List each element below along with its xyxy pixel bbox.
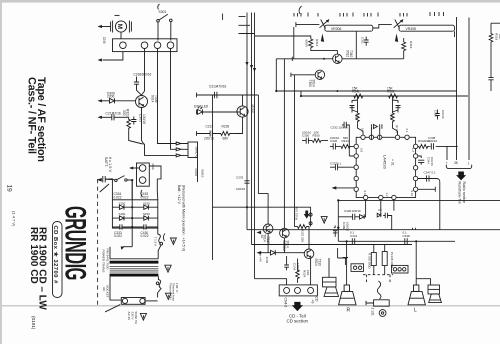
wire CN8 down-left [103,52,123,60]
IC pin 10 [354,187,358,191]
radio connector bracket [446,165,471,169]
svg-text:680/16: 680/16 [142,73,152,77]
transistor T319 [304,249,314,259]
svg-text:Tape / AF section: Tape / AF section [35,77,47,162]
svg-text:R323 10K: R323 10K [295,207,299,220]
diode D331 [377,213,381,217]
svg-text:VR306: VR306 [331,27,341,31]
capacitor C338 [430,143,457,149]
wire to x391 down [391,216,393,230]
mains fuse curl [158,228,161,243]
series resistor R352 [389,94,398,98]
wire switch to rail [127,180,132,200]
svg-text:LA4520: LA4520 [383,155,388,170]
bus line right channel [301,95,468,97]
svg-text:BATT.: BATT. [104,157,108,167]
wire T318 base feed [283,59,285,229]
wire pin3 to SWC [171,141,177,150]
wire bracket left drop [293,27,295,59]
svg-text:47/16: 47/16 [113,111,121,115]
svg-text:1K: 1K [260,235,264,239]
resistor R323 [295,225,309,229]
svg-text:6 x 1.5 V: 6 x 1.5 V [108,157,112,172]
IC pin 16 [363,195,367,199]
jack J131 [366,300,389,317]
transistor T310 [333,54,342,63]
potentiometer VR306 [320,20,330,29]
svg-text:15K: 15K [352,86,359,90]
capacitor C339 right column [435,110,439,120]
svg-text:9.01: 9.01 [410,191,414,197]
long rail y244 [252,244,413,246]
svg-text:T310: T310 [349,50,353,57]
svg-text:Rundfunk-Teil: Rundfunk-Teil [457,182,461,204]
svg-text:VR308: VR308 [406,27,416,31]
wire rail to R314 [255,36,311,39]
net B+ with pin circles [309,207,312,227]
svg-text:C318: C318 [134,73,142,77]
resistor R34A pin11 [418,144,430,148]
wire pin18 down [393,200,395,211]
wire R323 to T319 [307,227,309,249]
capacitor C319 [488,78,493,91]
svg-text:680: 680 [223,137,229,141]
slider box VR306 [325,25,373,31]
svg-text:(Reduced with Mains operation: (Reduced with Mains operation : +14.5 V) [182,185,186,251]
wiper arrow VR308 [395,34,398,42]
svg-text:R314: R314 [315,39,319,47]
fuse terminal circle [160,242,163,245]
wire diode row1 [112,206,157,208]
diode D4 [144,216,149,221]
diode D1 [119,205,124,210]
wire pots link [373,24,392,28]
junction dots bus [275,58,338,97]
svg-text:R228: R228 [222,125,230,129]
svg-text:10K: 10K [306,270,310,275]
wire T306 to SWC [145,144,177,156]
dashed drop left [366,275,368,283]
capacitor C333r in rail A [244,181,249,183]
IC pin 6 [354,144,358,148]
thermal fuse curl [158,277,161,298]
capacitor C332 [342,122,354,156]
capacitor C305 [131,117,136,125]
IC pin 15 [413,187,417,191]
wire pin16 chain [364,200,365,217]
svg-text:+ 31: + 31 [391,159,395,166]
scan edge top [0,0,500,3]
tick marks pot scale [223,12,444,20]
warning triangle top [170,238,176,245]
svg-text:POWER TRANS: POWER TRANS [101,250,105,273]
svg-text:9014: 9014 [285,241,289,248]
wire jack loop to bridge [149,166,161,200]
T306 internals [139,97,144,106]
svg-text:50/60 Hz: 50/60 Hz [134,312,138,325]
wire R321 down [129,130,143,144]
IC LA4520 body [356,137,415,197]
diode D3 [119,216,124,221]
diode D315 [271,250,276,255]
arrow to primary [121,246,124,250]
tweeter R [323,277,339,296]
svg-text:SWC-6: SWC-6 [195,147,199,158]
svg-text:4148: 4148 [265,257,269,264]
svg-text:S150: S150 [143,201,150,205]
IC pin 8 [354,165,358,169]
svg-text:C326: C326 [344,209,352,213]
svg-text:(1 4 7 V): (1 4 7 V) [12,211,17,227]
RC from bus to pin4 [391,96,401,135]
wire T317 collector up [258,194,268,224]
wire pin2 to SWC [158,141,177,144]
supply rail A [246,13,248,230]
svg-text:PL338 100Ω: PL338 100Ω [390,252,394,269]
wire L speaker feed [415,241,417,285]
svg-text:138° C: 138° C [175,283,179,293]
svg-text:T306: T306 [154,95,158,103]
dashed mains separation line [97,179,99,308]
fuse circle [156,282,159,285]
SWC-6 pin arrows [176,142,181,157]
rail arrowheads [245,62,256,72]
junction rail A [246,206,248,208]
page fold line [2,305,500,307]
svg-text:0.022: 0.022 [141,234,149,238]
arrow B+ black [304,211,310,219]
svg-text:0.022: 0.022 [114,195,122,199]
wire tape out [197,94,259,96]
headphone jack CN6 [129,163,161,200]
wire base rail to R323 [294,75,296,227]
svg-text:Thermal fuse: Thermal fuse [172,283,176,301]
wire motor left lead [101,26,111,28]
transistor T318 [280,228,290,238]
svg-text:S301: S301 [159,10,167,14]
wire SWC feedthrough [181,144,188,156]
svg-text:C213: C213 [206,125,214,129]
wire SWC down [197,158,199,183]
dash mark above motor [115,14,120,16]
speaker R [339,285,356,305]
svg-text:GRUNDIG: GRUNDIG [58,206,90,280]
capacitor C341 [352,238,354,244]
diode D306 [110,98,115,103]
svg-text:0.1: 0.1 [403,231,408,235]
svg-text:(0191): (0191) [31,316,36,330]
wire pin10 left with arrow [336,187,354,189]
wire T310 out right [342,58,404,60]
power switch S302 [115,176,127,182]
arrow into Q317 [257,231,262,234]
svg-text:0.8: 0.8 [360,148,364,152]
capacitor C333 [112,224,122,232]
svg-text:bat +4V: bat +4V [259,252,263,262]
wire pin17 chain [380,200,382,216]
capacitor C346 + resistor R344 to pin6 [330,143,354,149]
svg-text:(: ( [468,161,470,165]
svg-text:R 338 100Ω: R 338 100Ω [367,253,371,269]
dashed service link [363,274,393,276]
capacitor C326b [338,214,359,220]
wire to C217 [102,116,112,118]
svg-text:SOCKET: SOCKET [106,285,110,298]
fuse bracket curve [163,234,165,242]
capacitor C217 [112,114,114,120]
arrow into C217 [98,116,102,119]
wire cap to switch [105,178,115,181]
capacitor C348 [405,238,407,244]
svg-text:C332: C332 [331,125,339,129]
svg-text:S150: S150 [143,212,150,216]
coupling diodes pins2-3 [371,124,382,139]
svg-text:10K: 10K [314,131,319,135]
svg-text:100/16: 100/16 [441,110,445,119]
svg-text:AC: AC [102,287,106,292]
svg-text:330: 330 [122,110,126,116]
wire rail feed A [239,17,255,34]
wiper arrow VR306 [321,34,324,42]
svg-text:P/N 3441-7530: P/N 3441-7530 [105,249,109,270]
radio bus line 3 [446,146,448,160]
radio bus line 2 [468,18,470,161]
bus line left channel [276,90,457,92]
svg-text:100/16: 100/16 [339,125,349,129]
connector CN4-5 [279,285,317,296]
scan artifact curve 1 [158,4,160,10]
svg-text:C333: C333 [236,176,244,180]
transistor T309 [315,70,324,79]
wire switch to strip pin3 [170,22,172,41]
wire R314 out [311,48,338,55]
svg-text:S150: S150 [119,212,126,216]
wire R316 to bus [403,38,405,59]
svg-text:CN6: CN6 [151,164,155,170]
wire x412 pins drop [413,228,416,230]
pot feed wire [296,22,320,27]
wire start ticks [196,93,198,136]
svg-text:100/16: 100/16 [296,263,300,273]
svg-text:40Ω: 40Ω [390,114,394,119]
wire slider2 end drop [454,31,456,37]
scan edge left [0,0,2,344]
capacitor C309 [333,225,338,237]
arrow mains in [97,178,102,182]
capacitor C330 [122,224,158,229]
svg-text:4051: 4051 [355,114,359,121]
speaker L [408,285,425,305]
warning triangle amp [321,217,327,224]
IC pin 1 [361,135,365,139]
arrow into jack [129,167,133,170]
resistor R316 [402,42,406,51]
wire D306 to T306 base [115,100,136,102]
capacitor C311 [364,37,369,46]
connector 2pin [351,264,364,272]
resistor R314 [309,39,313,48]
svg-text:T309: T309 [308,80,312,87]
capacitor C313 [215,92,217,98]
svg-text:D306: D306 [107,91,115,95]
wire bus to T310 [276,57,332,61]
diode D2 [144,205,149,210]
svg-text:C339: C339 [434,110,438,117]
wire strip pin1 down [142,49,145,95]
connector SWC-6 [188,142,198,158]
wire bus to T309 [291,73,315,77]
wire primary left leg [109,247,111,259]
IC pin 9 [354,176,358,180]
junction dot rail2 [337,199,339,201]
svg-text:M: M [116,24,123,29]
rectifier box [112,200,157,228]
wire C334b top [286,256,288,262]
wire tweeter L feed [416,279,430,285]
svg-text:S150: S150 [119,201,126,205]
junction dots bridge [131,206,133,228]
svg-text:EM10: EM10 [201,170,205,178]
capacitor C337L to pin8 [330,164,354,170]
arrow into diode D306 [98,99,102,102]
wire T317 emitter down [267,234,269,253]
capacitor C input [103,176,105,182]
warning triangle ac-in [140,313,146,320]
resistor R324 [296,268,300,283]
svg-text:Radio section: Radio section [462,182,466,204]
svg-text:100/16: 100/16 [236,187,246,191]
arrow out left [98,58,102,61]
svg-text:100/10: 100/10 [330,136,340,140]
long rail y230 [247,229,500,231]
junction switch rail [131,179,133,181]
wire socket right [145,300,158,302]
capacitor C347 [427,175,429,181]
wire D315 to T319 base [275,252,304,254]
svg-text:100/16: 100/16 [352,209,362,213]
arrow into diode D315 [257,251,262,254]
svg-text:R322 22K: R322 22K [301,229,305,242]
svg-text:470/16: 470/16 [217,85,227,89]
wire LED to T311 [203,111,241,113]
transistor T306 [136,96,148,108]
svg-text:100/16: 100/16 [430,157,434,166]
resistor R319 [489,33,493,44]
wire tweeter R feed [328,258,330,277]
capacitor C350 + resistor R350 [302,138,328,144]
junction dot rail [337,227,339,229]
resistor box R338 [371,245,376,275]
wire strip pin2 down [157,49,159,141]
wire y207 feed [213,206,311,208]
switch S301 [157,14,172,22]
power transformer TR [110,259,159,277]
capacitor C213 [197,131,218,137]
svg-text:230 V: 230 V [130,312,134,321]
svg-text:R316: R316 [409,41,413,49]
scan artifact curve 2 [299,6,301,14]
IC pin 18 [392,195,396,199]
IC pin 7 [354,154,358,158]
dashed drop right [389,275,391,283]
wire pin15 stub [418,187,436,192]
connector 3pin [392,265,409,273]
svg-text:9.01: 9.01 [363,191,367,197]
wire T319 down to CD [310,258,312,285]
svg-text:100/16: 100/16 [142,114,146,124]
diode D330 [360,214,365,219]
far right dropper chain [490,25,492,33]
wire R319 down [490,44,492,78]
wire diode row2 [112,217,157,219]
svg-text:CD: CD [315,297,319,302]
motor M301 [111,21,132,33]
wire strip pin3 down [170,49,172,141]
wire fuse to primary right [158,245,161,259]
svg-text:100/16: 100/16 [345,222,349,232]
rail +B vertical [212,95,214,260]
capacitor C342 [383,213,392,219]
svg-text:(A 1.7): (A 1.7) [395,125,399,133]
resistor R228 [218,132,234,136]
RC from bus to pin1 [350,96,364,135]
svg-text:+9: +9 [311,300,315,304]
svg-text:C305: C305 [139,114,143,122]
series resistor R341 [354,94,363,98]
svg-text:220/16: 220/16 [204,137,214,141]
transistor T311 [237,106,248,117]
IC pin 14 [413,176,417,180]
wire R228 to T311 [233,117,242,133]
svg-text:CD section: CD section [287,319,309,324]
arrow to radio section [456,172,466,181]
svg-text:LED: LED [202,105,209,109]
svg-text:0.1: 0.1 [350,231,355,235]
IC pin 5 [405,135,409,139]
arrow CD section [292,302,303,311]
supply rail C [254,13,256,279]
svg-text:680R: 680R [305,40,309,48]
wire to D306 [102,100,110,102]
svg-text:J 131: J 131 [371,308,375,316]
IC pin 2 [369,135,373,139]
slider box VR308 [399,25,455,31]
IC pin 12 [413,154,417,158]
transistor T317 [263,224,273,234]
wire pin14 right [418,179,440,230]
wire right bus drop [300,91,302,96]
tweeter L [428,285,441,303]
svg-text:19: 19 [6,185,13,193]
svg-text:100/10: 100/10 [302,131,312,135]
wire R324 top [297,259,299,269]
svg-text:680: 680 [343,136,348,140]
potentiometer VR308 [394,20,404,29]
wire top right exit [491,22,500,24]
capacitor C344 pin12 [418,156,425,165]
wire T306 emitter down [142,108,145,146]
wire T318 emitter down [283,238,285,253]
svg-text:RR 1900 CD – LW: RR 1900 CD – LW [37,227,48,310]
svg-text:AC IN: AC IN [127,312,131,320]
svg-text:15K: 15K [387,86,394,90]
AC socket [121,298,145,305]
svg-text:C347: C347 [424,171,432,175]
svg-text:CN4-5: CN4-5 [284,298,288,308]
svg-text:CN9: CN9 [102,37,106,44]
resistor R321 [127,117,131,130]
wire bridge to primary left [122,246,132,248]
